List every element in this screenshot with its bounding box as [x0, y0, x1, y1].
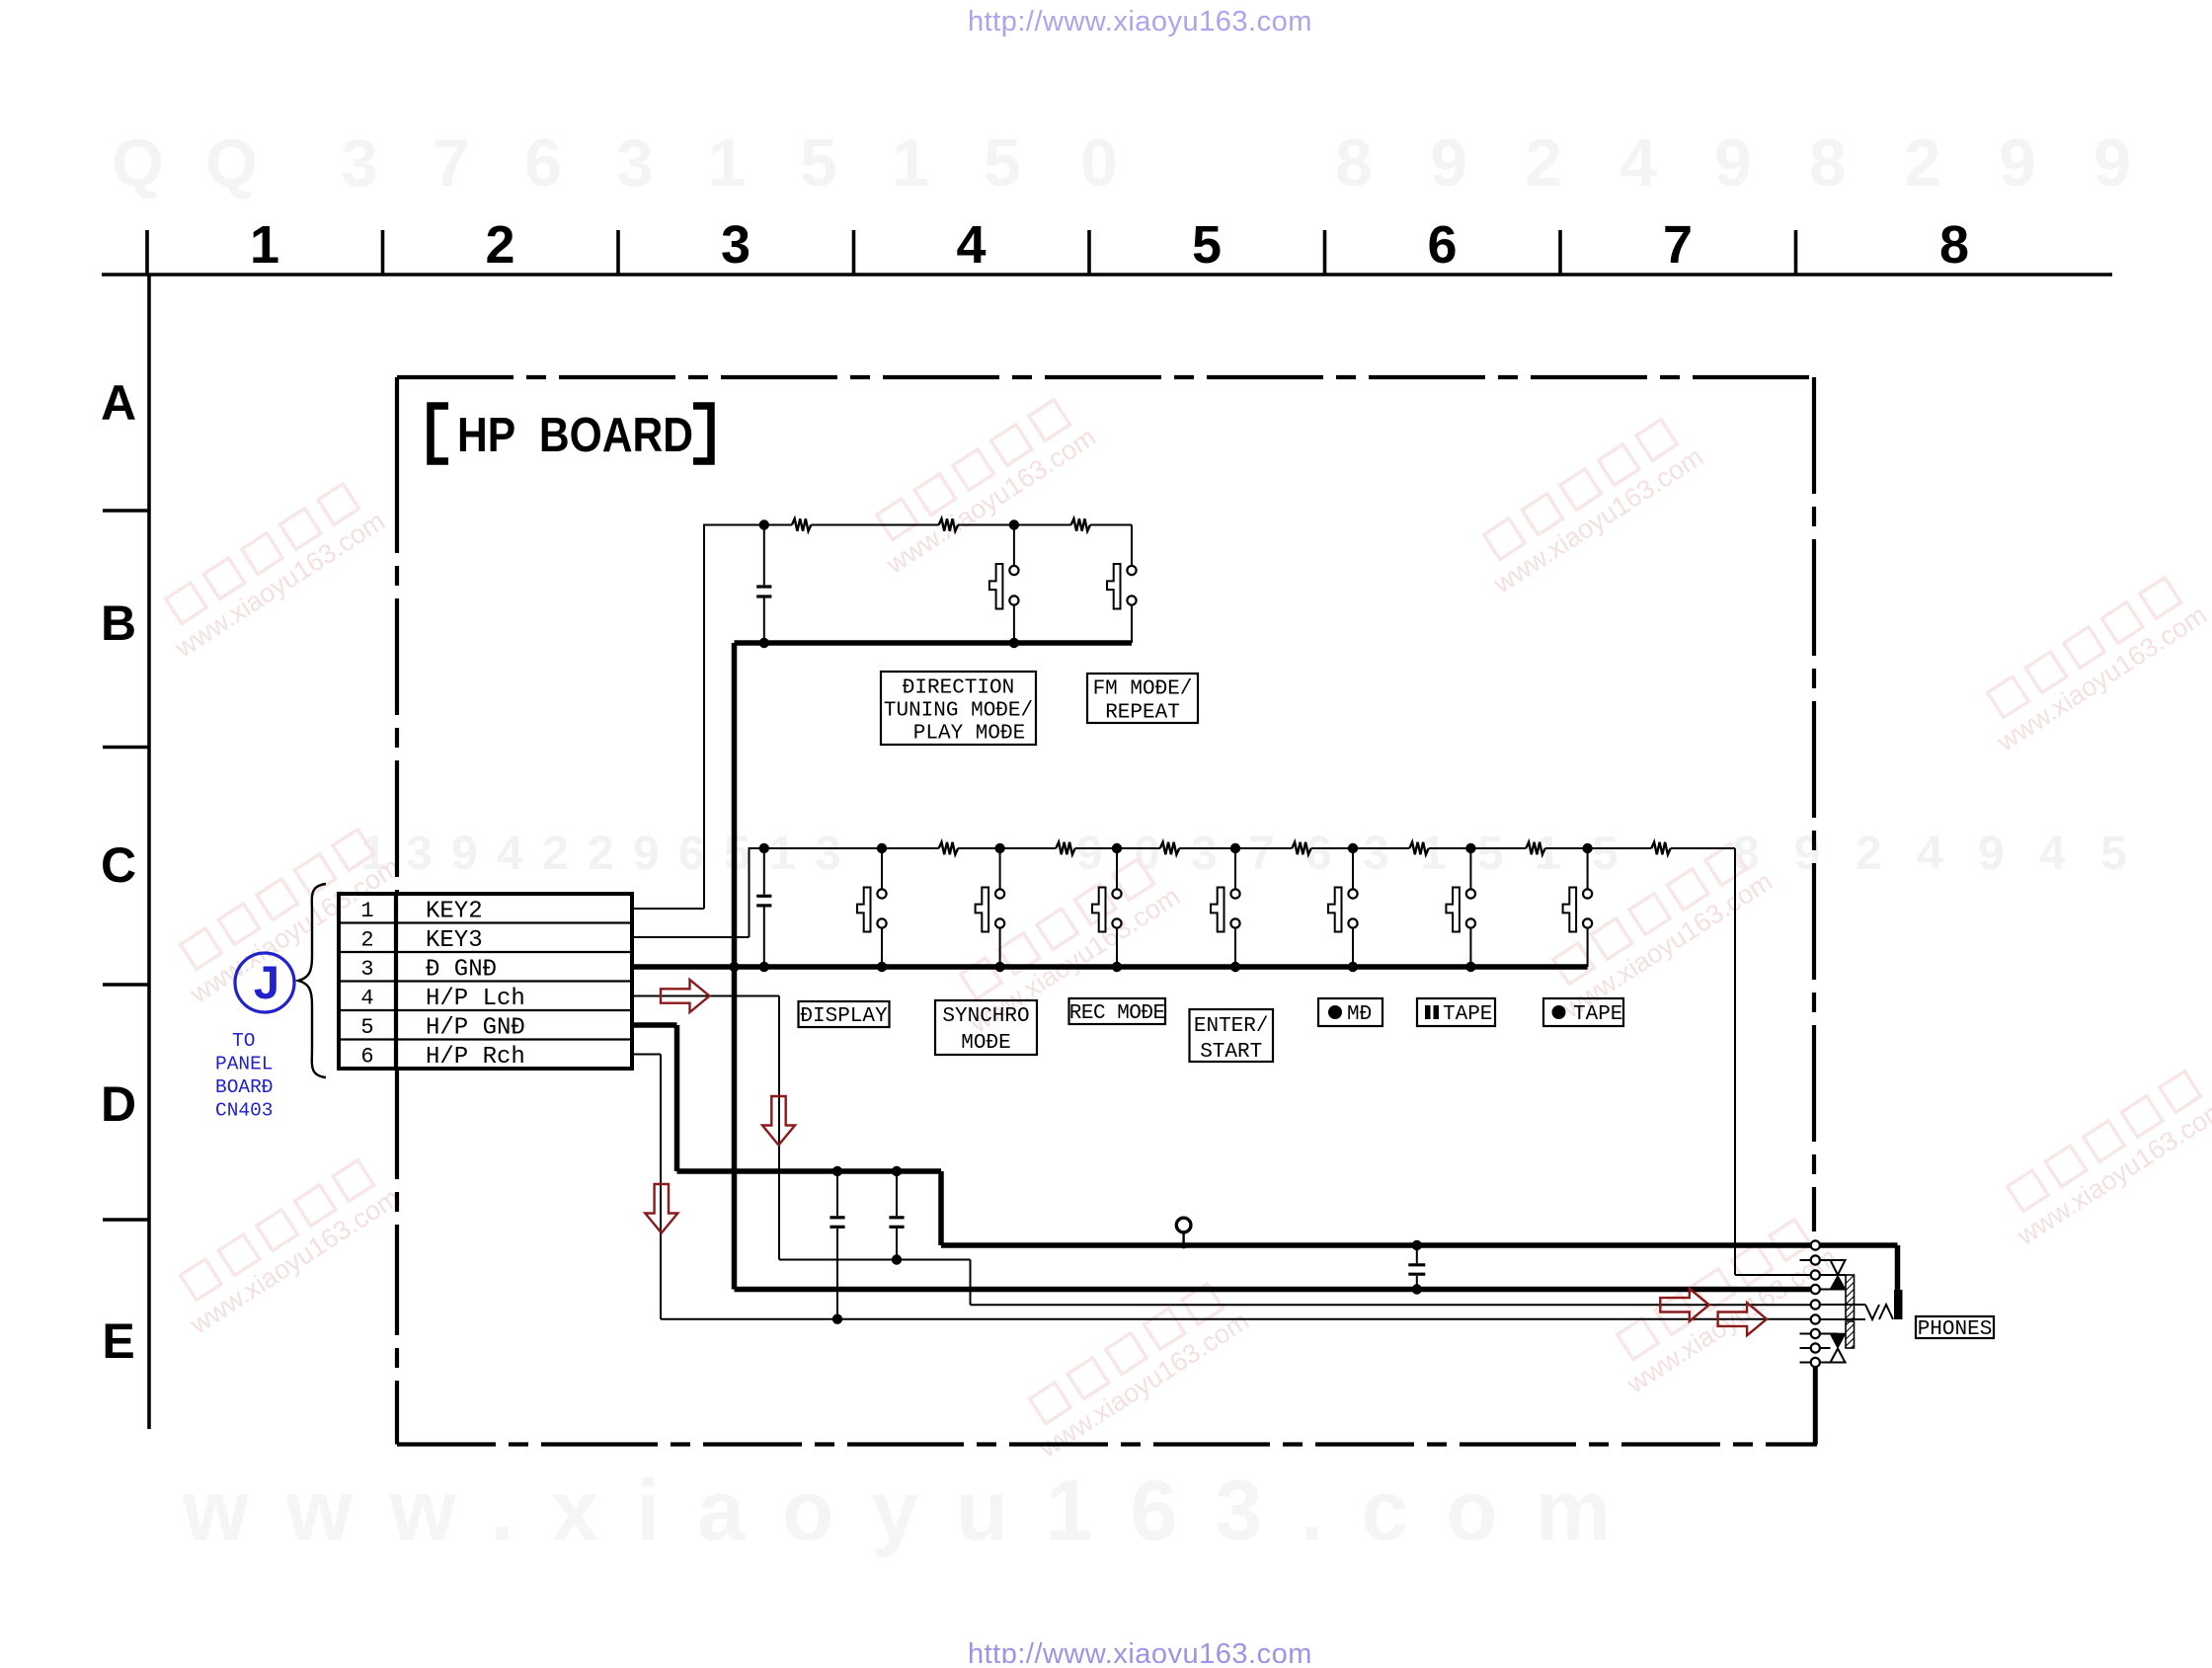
wire top ladder rail (KEY2 net)	[704, 524, 792, 526]
svg-text:0: 0	[1080, 125, 1118, 200]
svg-text:4: 4	[1619, 125, 1657, 200]
svg-text:7: 7	[433, 125, 470, 200]
svg-text:3: 3	[406, 828, 433, 880]
wire ladder tail horizontal into jack	[1735, 1274, 1811, 1276]
svg-text:9: 9	[1076, 828, 1103, 880]
switch S1 (DIRECTION TUNING MODE/PLAY MODE key)	[1013, 525, 1015, 566]
node S1 to ground bus	[1009, 638, 1019, 648]
jack contact link terminal 9	[1820, 1362, 1831, 1364]
jack terminal stub 8	[1800, 1347, 1811, 1349]
jack plug break symbol	[1865, 1305, 1879, 1319]
svg-text:PANEL: PANEL	[215, 1054, 274, 1075]
jack contact link terminal 4	[1820, 1289, 1846, 1291]
resistor R8	[1409, 842, 1428, 855]
jack switch contact lower (closed)	[1831, 1334, 1846, 1348]
wire ladder tail to jack detect contact: vertical drop	[1734, 848, 1736, 1275]
node D GND bus junction at x=1370	[1348, 962, 1358, 972]
left ruler tick 2	[103, 746, 149, 750]
wire D GND run to jack (thick)	[735, 1287, 1811, 1293]
svg-text:E: E	[102, 1313, 134, 1369]
connector designator circle J	[235, 953, 294, 1012]
svg-text:3: 3	[341, 125, 378, 200]
wire H/P GND run to jack (thick)	[941, 1242, 1811, 1248]
svg-text:TUNING MOĐE/: TUNING MOĐE/	[884, 700, 1033, 723]
wire H/P Lch horizontal run	[779, 1259, 971, 1261]
connector J table divider	[394, 894, 398, 1069]
resistor R10	[1651, 842, 1670, 855]
svg-text:6: 6	[360, 1045, 373, 1070]
svg-text:A: A	[101, 375, 136, 431]
jack switch contact lower (open)	[1831, 1349, 1846, 1363]
jack terminal stub 9	[1800, 1362, 1811, 1364]
svg-text:2: 2	[1856, 828, 1882, 880]
arrow H/P Lch output (right)	[661, 980, 710, 1012]
connector J table outline	[339, 894, 632, 1069]
jack plug shaft top edge	[1820, 1304, 1865, 1306]
svg-text:8: 8	[1335, 125, 1373, 200]
node D GND bus junction at x=1489.4	[1465, 962, 1475, 972]
wire H/P Lch step down	[970, 1260, 972, 1306]
label box REC MODE	[1069, 998, 1166, 1024]
wire ground riser (thick, D GND)	[732, 643, 738, 1290]
svg-text:3: 3	[616, 125, 654, 200]
switch S7 (MD key)	[1352, 848, 1354, 889]
node D GND bus junction at x=893	[877, 962, 887, 972]
svg-text:9: 9	[1978, 828, 2005, 880]
top ruler tick 1	[145, 230, 149, 275]
label box DISPLAY	[799, 1001, 890, 1027]
svg-text:FM MOĐE/: FM MOĐE/	[1093, 678, 1193, 701]
svg-text:KEY3: KEY3	[426, 927, 483, 954]
svg-text:3: 3	[721, 215, 750, 275]
svg-text:SYNCHRO: SYNCHRO	[942, 1005, 1029, 1028]
wire KEY2 vertical riser to top key ladder	[703, 524, 705, 910]
label box FM MODE/REPEAT	[1087, 674, 1198, 723]
wire jack frame to board boundary (thick)	[1813, 1367, 1818, 1445]
node D GND bus junction at x=1131	[1112, 962, 1122, 972]
node C2 bottom on D GND bus	[759, 962, 769, 972]
capacitor C4	[896, 1171, 898, 1216]
board title bracket left	[431, 406, 448, 461]
resistor R5	[1056, 842, 1074, 855]
jack terminal 9	[1811, 1358, 1820, 1367]
left ruler tick 1	[103, 509, 149, 513]
svg-text:TAPE: TAPE	[1573, 1003, 1622, 1026]
svg-text:START: START	[1200, 1041, 1262, 1064]
svg-text:6: 6	[678, 828, 705, 880]
top ruler tick 7	[1558, 230, 1562, 275]
svg-text:1: 1	[769, 828, 796, 880]
connector J table row line 4	[339, 1009, 632, 1011]
jack sleeve contact bar	[1894, 1290, 1903, 1319]
switch S6 (ENTER/START key)	[1234, 848, 1236, 889]
wire KEY3 vertical riser	[749, 847, 750, 937]
svg-text:H/P Lch: H/P Lch	[426, 986, 525, 1012]
svg-text:CN403: CN403	[215, 1100, 274, 1122]
svg-text:1: 1	[1535, 828, 1561, 880]
jack terminal 3	[1811, 1270, 1820, 1279]
node ladder rail junction at x=1489.4	[1465, 843, 1475, 853]
svg-text:5: 5	[724, 828, 750, 880]
svg-text:1: 1	[708, 125, 746, 200]
label box TAPE (pause icon)	[1417, 998, 1495, 1026]
svg-text:BOARĐ: BOARĐ	[215, 1076, 274, 1098]
capacitor C5	[1416, 1245, 1418, 1263]
connector J table row line 1	[339, 921, 632, 923]
svg-text:4: 4	[1917, 828, 1943, 880]
svg-text:1: 1	[892, 125, 929, 200]
top ruler tick 2	[381, 230, 385, 275]
svg-text:2: 2	[1525, 125, 1562, 200]
resistor R4	[939, 842, 958, 855]
connector brace	[298, 884, 326, 1077]
label box MD (record icon)	[1318, 998, 1382, 1026]
wire KEY2 horizontal from connector pin 1	[632, 908, 704, 910]
label box SYNCHRO MODE	[935, 1000, 1037, 1055]
svg-text:www.xiaoyu163.com: www.xiaoyu163.com	[182, 1464, 1648, 1558]
jack insulator bar lower (hatched)	[1846, 1321, 1855, 1348]
svg-text:3: 3	[1191, 828, 1218, 880]
node ladder rail junction at x=1370	[1348, 843, 1358, 853]
svg-text:9: 9	[633, 828, 660, 880]
svg-text:6: 6	[524, 125, 562, 200]
svg-text:5: 5	[1477, 828, 1504, 880]
svg-text:4: 4	[2039, 828, 2066, 880]
HP BOARD boundary right	[1812, 377, 1816, 1231]
jack terminal 6	[1811, 1314, 1820, 1323]
svg-text:HP BOARD: HP BOARD	[457, 409, 693, 462]
HP BOARD boundary left (below connector table)	[395, 1069, 399, 1445]
svg-text:3: 3	[815, 828, 841, 880]
wire ground bus of top ladder (thick)	[735, 640, 1133, 646]
switch S2 (FM MODE/REPEAT key)	[1131, 525, 1133, 566]
switch S3 (DISPLAY key)	[881, 848, 883, 889]
wire H/P Lch run to jack	[971, 1304, 1811, 1306]
node ladder rail junction at x=1131	[1112, 843, 1122, 853]
jack plug shaft bottom edge	[1820, 1318, 1865, 1320]
svg-text:8: 8	[1939, 215, 1969, 275]
node D GND bus junction at x=1012.6	[994, 962, 1004, 972]
svg-text:9: 9	[1714, 125, 1752, 200]
svg-text:PLAY MOĐE: PLAY MOĐE	[913, 723, 1025, 746]
jack terminal 5	[1811, 1300, 1820, 1309]
resistor R1	[792, 518, 811, 531]
svg-text:9: 9	[1999, 125, 2036, 200]
top ruler tick 3	[616, 230, 620, 275]
jack terminal stub 2	[1800, 1259, 1811, 1261]
wire H/P Rch vertical drop	[660, 1055, 662, 1319]
node KEY2/C1 junction	[759, 519, 769, 529]
svg-text:PHONES: PHONES	[1918, 1318, 1993, 1341]
wire H/P Lch from pin 4	[632, 995, 779, 997]
svg-text:5: 5	[1592, 828, 1619, 880]
label box TAPE (record icon)	[1543, 998, 1623, 1026]
svg-text:2: 2	[1904, 125, 1941, 200]
svg-text:J: J	[254, 956, 279, 1008]
svg-text:9: 9	[451, 828, 478, 880]
svg-text:4: 4	[360, 987, 373, 1011]
svg-text:TAPE: TAPE	[1443, 1003, 1492, 1026]
wire H/P GND second drop (thick)	[938, 1171, 944, 1245]
svg-text:TO: TO	[232, 1030, 255, 1052]
svg-text:C: C	[101, 837, 136, 893]
svg-text:5: 5	[360, 1015, 373, 1040]
svg-text:3: 3	[1363, 828, 1389, 880]
svg-text:2: 2	[542, 828, 569, 880]
svg-text:H/P GNĐ: H/P GNĐ	[426, 1014, 525, 1041]
resistor R9	[1526, 842, 1544, 855]
left ruler tick 3	[103, 983, 149, 987]
node C2 top	[759, 843, 769, 853]
label box ENTER/START	[1190, 1009, 1274, 1062]
wire middle ladder rail (KEY3 net)	[750, 847, 939, 849]
wire H/P Lch vertical drop	[778, 996, 780, 1260]
svg-text:2: 2	[360, 928, 373, 953]
svg-text:5: 5	[1192, 215, 1222, 275]
svg-text:2: 2	[485, 215, 514, 275]
svg-text:MĐ: MĐ	[1347, 1003, 1372, 1026]
jack contact link terminal 2	[1820, 1259, 1838, 1261]
connector J table row line 2	[339, 951, 632, 953]
svg-text:Đ GNĐ: Đ GNĐ	[426, 956, 497, 983]
jack terminal 4	[1811, 1285, 1820, 1294]
connector J table row line 5	[339, 1038, 632, 1040]
switch S9 (TAPE key)	[1587, 848, 1589, 889]
arrow H/P Lch flow (down)	[762, 1096, 795, 1146]
svg-text:1: 1	[1420, 828, 1447, 880]
node ladder rail junction at x=1251	[1230, 843, 1240, 853]
svg-text:Q: Q	[205, 125, 258, 200]
wire jack sleeve feed (thick)	[1820, 1242, 1898, 1248]
HP BOARD boundary top	[397, 375, 1814, 379]
node C1 to ground bus	[759, 638, 769, 648]
node ladder rail junction at x=1607.6	[1582, 843, 1592, 853]
svg-text:3: 3	[360, 957, 373, 982]
svg-text:7: 7	[1663, 215, 1693, 275]
svg-text:2: 2	[588, 828, 614, 880]
svg-text:REC MOĐE: REC MOĐE	[1069, 1002, 1165, 1025]
svg-text:6: 6	[1427, 215, 1457, 275]
svg-text:D: D	[101, 1076, 136, 1132]
connector J table row line 3	[339, 980, 632, 982]
svg-text:KEY2: KEY2	[426, 898, 483, 924]
top ruler tick 8	[1794, 230, 1798, 275]
node C4 bottom on H/P Lch	[892, 1254, 902, 1264]
node C3 top on H/P GND	[832, 1166, 842, 1176]
svg-text:5: 5	[2100, 828, 2127, 880]
jack terminal 8	[1811, 1343, 1820, 1352]
node C5 bottom on D GND	[1412, 1284, 1422, 1294]
svg-text:ĐIRECTION: ĐIRECTION	[903, 677, 1014, 700]
wire KEY3 horizontal from connector pin 2	[632, 936, 750, 938]
svg-text:H/P Rch: H/P Rch	[426, 1044, 525, 1071]
resistor R6	[1160, 842, 1179, 855]
node C3 bottom on H/P Rch	[832, 1314, 842, 1324]
wire H/P GND vertical drop (thick)	[674, 1025, 680, 1171]
arrow H/P Rch flow (down)	[645, 1184, 677, 1233]
svg-text:http://www.xiaoyu163.com: http://www.xiaoyu163.com	[968, 1638, 1312, 1663]
jack terminal 2	[1811, 1255, 1820, 1264]
svg-text:Q: Q	[112, 125, 164, 200]
left ruler line	[147, 275, 151, 1429]
svg-text:REPEAT: REPEAT	[1105, 702, 1180, 725]
jack insulator bar upper (hatched)	[1846, 1275, 1855, 1319]
label box PHONES	[1916, 1316, 1994, 1338]
node C5 top on H/P GND	[1412, 1240, 1422, 1250]
svg-text:ĐISPLAY: ĐISPLAY	[800, 1005, 888, 1028]
terminal ring on H/P GND	[1176, 1218, 1191, 1232]
svg-text:B: B	[101, 596, 136, 651]
jack switch contact upper (closed)	[1831, 1276, 1846, 1290]
top ruler tick 6	[1323, 230, 1327, 275]
svg-text:http://www.xiaoyu163.com: http://www.xiaoyu163.com	[968, 6, 1312, 38]
capacitor C2	[763, 848, 765, 895]
svg-text:5: 5	[984, 125, 1021, 200]
capacitor C3	[836, 1171, 838, 1216]
resistor R7	[1292, 842, 1310, 855]
node D GND bus / ground riser junction	[729, 962, 739, 972]
jack terminal stub 7	[1800, 1333, 1811, 1335]
switch S4 (SYNCHRO MODE key)	[999, 848, 1001, 889]
HP BOARD boundary bottom	[397, 1442, 1817, 1446]
svg-text:9: 9	[1430, 125, 1467, 200]
node C4 top on H/P GND	[892, 1166, 902, 1176]
resistor R3	[1071, 518, 1090, 531]
svg-text:8: 8	[1809, 125, 1847, 200]
wire H/P Rch run to jack	[661, 1318, 1811, 1320]
svg-text:7: 7	[1248, 828, 1275, 880]
wire D GND bus (thick) from connector pin 3	[632, 964, 1588, 970]
jack contact link terminal 8	[1820, 1347, 1831, 1349]
node ladder rail junction at x=893	[877, 843, 887, 853]
node ring junction	[1180, 1242, 1187, 1249]
svg-text:1: 1	[360, 899, 373, 923]
node D GND bus junction at x=1251	[1230, 962, 1240, 972]
svg-text:9: 9	[1794, 828, 1821, 880]
switch S5 (REC MODE key)	[1116, 848, 1118, 889]
resistor R2	[939, 518, 958, 531]
wire H/P GND horizontal (thick)	[677, 1168, 942, 1174]
arrow L channel into jack	[1660, 1289, 1709, 1321]
jack contact link terminal 7	[1820, 1333, 1838, 1335]
jack terminal 7	[1811, 1329, 1820, 1338]
HP BOARD boundary left (above connector table)	[395, 377, 399, 894]
svg-text:5: 5	[800, 125, 837, 200]
node KEY2/S1 junction	[1009, 519, 1019, 529]
jack terminal 1	[1811, 1240, 1820, 1249]
switch S8 (TAPE pause key)	[1469, 848, 1471, 889]
wire H/P GND from pin 5 (thick)	[632, 1022, 677, 1028]
wire H/P Rch from pin 6	[632, 1054, 661, 1056]
jack switch contact upper (open)	[1831, 1260, 1846, 1275]
node ladder rail junction at x=1012.6	[994, 843, 1004, 853]
svg-text:MOĐE: MOĐE	[961, 1032, 1010, 1055]
svg-text:ENTER/: ENTER/	[1194, 1015, 1269, 1038]
jack contact link terminal 3	[1820, 1274, 1846, 1276]
top ruler line	[102, 273, 2112, 277]
top ruler tick 4	[852, 230, 856, 275]
capacitor C1	[763, 525, 765, 586]
label box DIRECTION TUNING MODE / PLAY MODE	[881, 672, 1036, 745]
svg-text:1: 1	[250, 215, 279, 275]
left ruler tick 4	[103, 1218, 149, 1222]
svg-text:9: 9	[2093, 125, 2131, 200]
arrow R channel into jack	[1718, 1303, 1768, 1335]
top ruler tick 5	[1087, 230, 1091, 275]
board title bracket right	[693, 406, 711, 461]
svg-text:4: 4	[956, 215, 986, 275]
svg-text:4: 4	[497, 828, 523, 880]
